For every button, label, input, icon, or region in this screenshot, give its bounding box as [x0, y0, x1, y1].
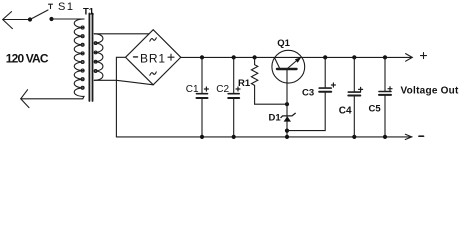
capacitor C5	[383, 55, 387, 59]
bottom rail arrow	[405, 134, 411, 139]
transistor Q1 body	[272, 50, 305, 83]
transistor Q1 emitter	[288, 59, 299, 68]
top rail arrow	[406, 54, 413, 62]
svg-text:Voltage Out: Voltage Out	[401, 85, 460, 96]
switch S1 pole dot	[28, 17, 32, 21]
top rail (positive bus)	[181, 56, 412, 58]
wire R1 to Q1 base	[255, 103, 287, 105]
svg-text:R1: R1	[238, 78, 251, 89]
svg-text:C4: C4	[339, 105, 352, 116]
svg-text:120 VAC: 120 VAC	[6, 51, 49, 65]
transistor Q1 base bar	[277, 68, 297, 70]
wire D1 to C3 bottom	[287, 92, 325, 130]
switch S1 lever	[30, 10, 48, 20]
svg-text:C1: C1	[186, 84, 199, 95]
minus output label	[419, 135, 424, 137]
svg-text:T1: T1	[83, 6, 95, 17]
wire secondary bottom to bridge	[94, 80, 153, 85]
transistor Q1 collector	[275, 58, 280, 68]
svg-text:C2: C2	[216, 84, 229, 95]
svg-text:C5: C5	[369, 104, 382, 115]
bridge plus sign	[168, 54, 174, 60]
bridge rectifier BR1 body	[126, 30, 181, 85]
resistor R1	[253, 55, 257, 59]
plus output label	[421, 53, 427, 59]
capacitor C4	[352, 55, 356, 59]
plug arrow bottom	[21, 90, 29, 108]
switch S1 contact T	[49, 4, 53, 8]
wire	[3, 19, 30, 21]
wire	[52, 18, 85, 20]
transformer T1 secondary winding	[94, 34, 103, 81]
capacitor C2	[232, 55, 236, 59]
capacitor C1	[200, 55, 204, 59]
svg-text:Q1: Q1	[277, 38, 290, 49]
wire	[21, 98, 83, 100]
svg-text:S1: S1	[58, 1, 74, 13]
transformer core	[89, 14, 92, 102]
node base junction	[285, 102, 289, 106]
node D1 anode junction	[285, 129, 289, 133]
wire bridge minus to negative bus	[116, 57, 125, 137]
zener diode D1	[286, 104, 288, 137]
svg-text:D1: D1	[269, 113, 282, 124]
bottom rail (negative bus)	[116, 136, 411, 138]
switch S1 throw dot	[49, 17, 53, 21]
plug arrow top (AC input line)	[3, 12, 13, 29]
bridge AC tilde bottom	[150, 72, 157, 75]
svg-text:C3: C3	[302, 88, 314, 99]
svg-text:BR1: BR1	[140, 51, 166, 65]
node D1 ground	[285, 135, 289, 139]
capacitor C3	[323, 55, 327, 59]
transformer primary curls	[81, 26, 84, 89]
transistor Q1 base lead	[286, 70, 288, 104]
transformer T1 primary winding	[74, 19, 84, 99]
wire secondary top to bridge	[94, 33, 149, 35]
bridge AC tilde top	[150, 38, 157, 41]
bridge minus sign	[134, 56, 138, 58]
transformer secondary curls	[94, 42, 97, 73]
